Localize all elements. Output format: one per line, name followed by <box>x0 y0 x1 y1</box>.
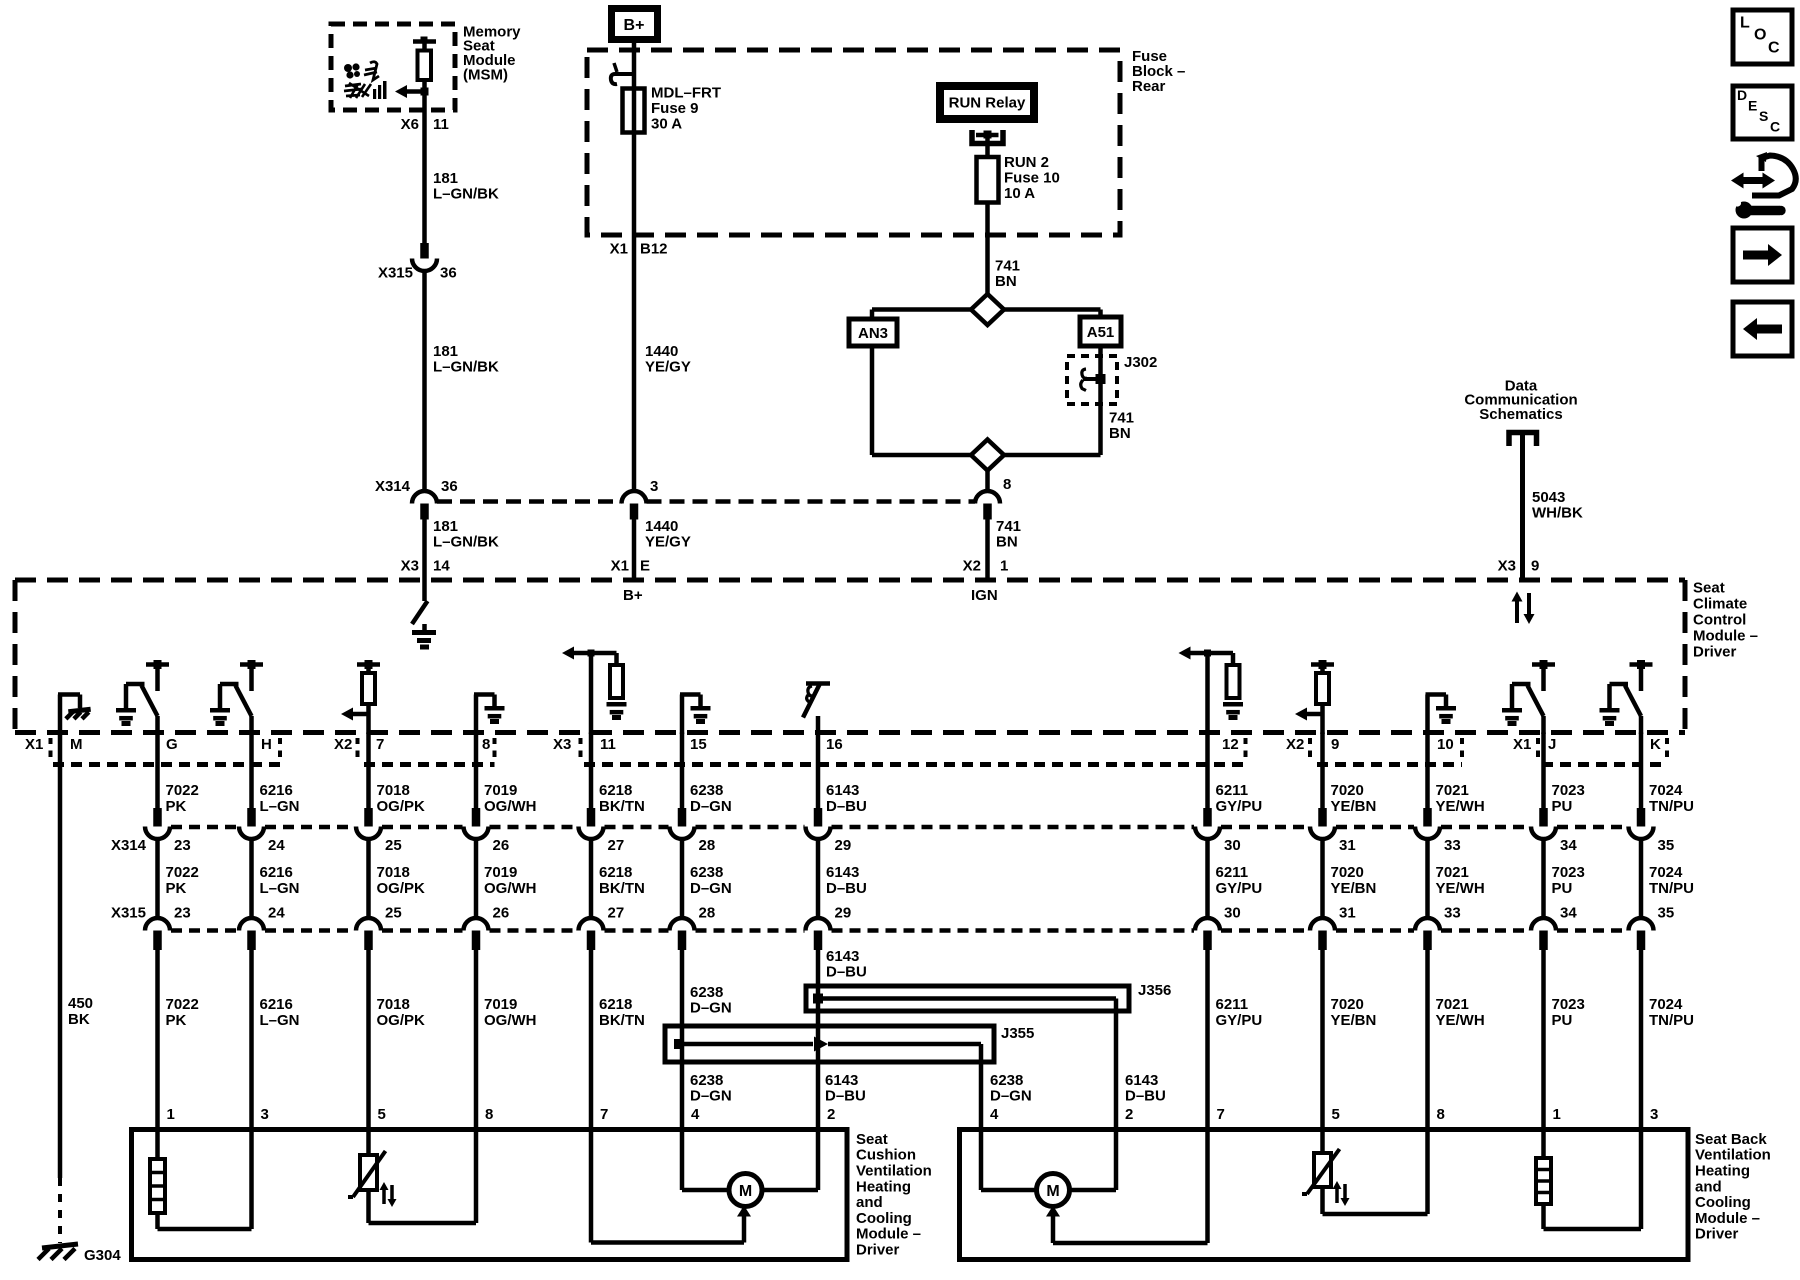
svg-text:6238: 6238 <box>690 984 723 1001</box>
svg-text:Climate: Climate <box>1693 595 1747 612</box>
svg-text:Driver: Driver <box>1695 1226 1739 1243</box>
svg-text:D–GN: D–GN <box>690 1087 732 1104</box>
svg-text:D: D <box>1737 87 1747 103</box>
svg-text:25: 25 <box>385 904 402 921</box>
svg-text:GY/PU: GY/PU <box>1216 880 1263 897</box>
svg-text:3: 3 <box>261 1106 269 1123</box>
svg-text:24: 24 <box>268 837 285 854</box>
svg-text:16: 16 <box>826 736 843 753</box>
svg-text:RUN 2: RUN 2 <box>1004 154 1049 171</box>
svg-text:7022: 7022 <box>166 996 199 1013</box>
svg-text:Control: Control <box>1693 611 1746 628</box>
svg-text:36: 36 <box>440 264 457 281</box>
svg-text:BN: BN <box>995 273 1017 290</box>
svg-text:YE/BN: YE/BN <box>1331 880 1377 897</box>
svg-text:9: 9 <box>1531 557 1539 574</box>
svg-text:L–GN/BK: L–GN/BK <box>433 358 499 375</box>
svg-text:X2: X2 <box>334 736 352 753</box>
svg-text:OG/PK: OG/PK <box>377 798 426 815</box>
svg-text:YE/WH: YE/WH <box>1436 1012 1485 1029</box>
svg-text:6238: 6238 <box>990 1072 1023 1089</box>
svg-text:24: 24 <box>268 904 285 921</box>
svg-text:H: H <box>261 736 272 753</box>
svg-text:Seat: Seat <box>1693 579 1725 596</box>
svg-text:7020: 7020 <box>1331 996 1364 1013</box>
svg-text:AN3: AN3 <box>858 325 888 342</box>
svg-text:7021: 7021 <box>1436 782 1469 799</box>
svg-text:B+: B+ <box>624 17 645 34</box>
svg-text:30 A: 30 A <box>651 115 682 132</box>
svg-text:G304: G304 <box>84 1247 121 1264</box>
svg-text:BK/TN: BK/TN <box>599 1012 645 1029</box>
svg-text:7024: 7024 <box>1649 864 1683 881</box>
svg-text:1: 1 <box>1000 557 1008 574</box>
svg-text:Module –: Module – <box>1695 1210 1760 1227</box>
svg-text:OG/WH: OG/WH <box>484 1012 537 1029</box>
svg-text:PK: PK <box>166 798 187 815</box>
svg-text:Driver: Driver <box>856 1242 900 1259</box>
svg-text:6143: 6143 <box>826 782 859 799</box>
svg-text:J: J <box>1548 736 1556 753</box>
svg-text:GY/PU: GY/PU <box>1216 798 1263 815</box>
svg-text:11: 11 <box>600 736 616 753</box>
svg-text:L–GN/BK: L–GN/BK <box>433 533 499 550</box>
svg-text:35: 35 <box>1658 837 1675 854</box>
svg-text:X314: X314 <box>111 837 147 854</box>
svg-text:PK: PK <box>166 1012 187 1029</box>
svg-text:BK/TN: BK/TN <box>599 880 645 897</box>
svg-text:7019: 7019 <box>484 996 517 1013</box>
svg-text:RUN Relay: RUN Relay <box>949 94 1026 111</box>
svg-text:X1: X1 <box>1513 736 1531 753</box>
svg-text:31: 31 <box>1339 904 1356 921</box>
svg-text:Cooling: Cooling <box>1695 1194 1751 1211</box>
svg-text:4: 4 <box>990 1106 999 1123</box>
svg-text:YE/BN: YE/BN <box>1331 1012 1377 1029</box>
svg-text:30: 30 <box>1224 904 1241 921</box>
svg-text:450: 450 <box>68 995 93 1012</box>
svg-text:27: 27 <box>608 837 625 854</box>
svg-text:3: 3 <box>650 478 658 495</box>
svg-text:6211: 6211 <box>1216 996 1249 1013</box>
svg-text:BN: BN <box>996 533 1018 550</box>
svg-text:J302: J302 <box>1124 354 1157 371</box>
svg-text:WH/BK: WH/BK <box>1532 504 1583 521</box>
svg-text:23: 23 <box>174 904 191 921</box>
svg-text:G: G <box>166 736 178 753</box>
svg-text:7020: 7020 <box>1331 864 1364 881</box>
svg-text:X2: X2 <box>1286 736 1304 753</box>
svg-text:D–GN: D–GN <box>690 999 732 1016</box>
svg-text:YE/BN: YE/BN <box>1331 798 1377 815</box>
svg-text:L: L <box>1740 15 1750 32</box>
svg-text:7022: 7022 <box>166 782 199 799</box>
svg-text:TN/PU: TN/PU <box>1649 798 1694 815</box>
svg-text:Ventilation: Ventilation <box>856 1163 932 1180</box>
svg-text:181: 181 <box>433 343 458 360</box>
svg-text:(MSM): (MSM) <box>463 66 508 83</box>
svg-text:7020: 7020 <box>1331 782 1364 799</box>
svg-text:X314: X314 <box>375 478 411 495</box>
svg-text:TN/PU: TN/PU <box>1649 1012 1694 1029</box>
svg-text:6211: 6211 <box>1216 782 1249 799</box>
svg-text:Module –: Module – <box>1693 627 1758 644</box>
svg-text:X315: X315 <box>111 904 146 921</box>
svg-text:E: E <box>1748 98 1757 114</box>
svg-text:B+: B+ <box>623 587 643 604</box>
svg-text:11: 11 <box>433 116 449 133</box>
svg-text:X3: X3 <box>1498 557 1516 574</box>
svg-text:28: 28 <box>699 837 716 854</box>
svg-text:Fuse 9: Fuse 9 <box>651 100 699 117</box>
svg-text:Schematics: Schematics <box>1479 406 1562 423</box>
svg-text:7023: 7023 <box>1552 864 1585 881</box>
svg-text:Driver: Driver <box>1693 643 1737 660</box>
svg-text:4: 4 <box>691 1106 700 1123</box>
svg-text:35: 35 <box>1658 904 1675 921</box>
svg-text:31: 31 <box>1339 837 1356 854</box>
svg-text:33: 33 <box>1444 904 1461 921</box>
svg-text:6218: 6218 <box>599 996 632 1013</box>
svg-text:D–BU: D–BU <box>826 880 867 897</box>
svg-text:Rear: Rear <box>1132 78 1166 95</box>
svg-text:2: 2 <box>827 1106 835 1123</box>
svg-text:B12: B12 <box>640 240 668 257</box>
svg-text:OG/WH: OG/WH <box>484 880 537 897</box>
svg-text:1440: 1440 <box>645 518 678 535</box>
svg-text:7019: 7019 <box>484 864 517 881</box>
svg-text:L–GN/BK: L–GN/BK <box>433 185 499 202</box>
svg-text:6238: 6238 <box>690 782 723 799</box>
svg-text:X1: X1 <box>25 736 43 753</box>
svg-text:8: 8 <box>485 1106 493 1123</box>
svg-text:D–GN: D–GN <box>990 1087 1032 1104</box>
svg-text:6143: 6143 <box>826 864 859 881</box>
svg-text:Fuse 10: Fuse 10 <box>1004 169 1060 186</box>
svg-text:X3: X3 <box>401 557 419 574</box>
svg-text:2: 2 <box>1125 1106 1133 1123</box>
svg-text:M: M <box>70 736 83 753</box>
svg-text:GY/PU: GY/PU <box>1216 1012 1263 1029</box>
svg-text:OG/PK: OG/PK <box>377 1012 426 1029</box>
svg-text:27: 27 <box>608 904 625 921</box>
svg-text:6216: 6216 <box>260 782 293 799</box>
svg-text:YE/GY: YE/GY <box>645 358 691 375</box>
svg-text:L–GN: L–GN <box>260 880 300 897</box>
svg-text:5043: 5043 <box>1532 489 1565 506</box>
svg-text:36: 36 <box>441 478 458 495</box>
svg-text:E: E <box>640 557 650 574</box>
svg-text:8: 8 <box>482 736 490 753</box>
svg-text:Module –: Module – <box>856 1226 921 1243</box>
svg-text:YE/WH: YE/WH <box>1436 880 1485 897</box>
svg-text:741: 741 <box>1109 409 1134 426</box>
svg-text:181: 181 <box>433 518 458 535</box>
svg-text:C: C <box>1768 40 1780 57</box>
svg-text:7018: 7018 <box>377 782 410 799</box>
svg-text:BK: BK <box>68 1011 90 1028</box>
svg-text:D–BU: D–BU <box>826 963 867 980</box>
svg-text:15: 15 <box>690 736 707 753</box>
svg-text:7019: 7019 <box>484 782 517 799</box>
svg-text:1: 1 <box>1553 1106 1561 1123</box>
svg-text:34: 34 <box>1560 904 1577 921</box>
svg-text:YE/WH: YE/WH <box>1436 798 1485 815</box>
svg-text:OG/PK: OG/PK <box>377 880 426 897</box>
svg-text:PK: PK <box>166 880 187 897</box>
svg-text:M: M <box>739 1183 752 1200</box>
svg-text:10 A: 10 A <box>1004 185 1035 202</box>
svg-text:29: 29 <box>835 904 852 921</box>
svg-text:7: 7 <box>376 736 384 753</box>
svg-text:TN/PU: TN/PU <box>1649 880 1694 897</box>
svg-text:6238: 6238 <box>690 1072 723 1089</box>
svg-text:Heating: Heating <box>1695 1163 1750 1180</box>
svg-text:D–BU: D–BU <box>826 798 867 815</box>
svg-text:J356: J356 <box>1138 982 1171 999</box>
svg-text:C: C <box>1770 119 1780 135</box>
svg-text:7: 7 <box>1217 1106 1225 1123</box>
svg-text:D–BU: D–BU <box>1125 1087 1166 1104</box>
svg-text:X6: X6 <box>401 116 419 133</box>
svg-text:25: 25 <box>385 837 402 854</box>
svg-text:BK/TN: BK/TN <box>599 798 645 815</box>
svg-text:7018: 7018 <box>377 996 410 1013</box>
svg-text:181: 181 <box>433 170 458 187</box>
svg-text:Cooling: Cooling <box>856 1210 912 1227</box>
svg-text:12: 12 <box>1222 736 1239 753</box>
svg-text:14: 14 <box>433 557 450 574</box>
svg-text:6238: 6238 <box>690 864 723 881</box>
svg-text:7024: 7024 <box>1649 782 1683 799</box>
svg-text:K: K <box>1650 736 1661 753</box>
svg-text:L–GN: L–GN <box>260 798 300 815</box>
svg-text:Ventilation: Ventilation <box>1695 1147 1771 1164</box>
svg-text:X1: X1 <box>611 557 629 574</box>
svg-text:and: and <box>856 1194 883 1211</box>
svg-text:34: 34 <box>1560 837 1577 854</box>
svg-text:X1: X1 <box>610 240 628 257</box>
svg-text:Seat Back: Seat Back <box>1695 1131 1767 1148</box>
svg-text:S: S <box>1759 108 1768 124</box>
svg-text:D–BU: D–BU <box>825 1087 866 1104</box>
svg-text:741: 741 <box>995 257 1020 274</box>
svg-text:26: 26 <box>493 904 510 921</box>
svg-text:7021: 7021 <box>1436 864 1469 881</box>
svg-text:X315: X315 <box>378 264 413 281</box>
svg-text:6211: 6211 <box>1216 864 1249 881</box>
svg-text:BN: BN <box>1109 425 1131 442</box>
svg-text:7021: 7021 <box>1436 996 1469 1013</box>
svg-text:Heating: Heating <box>856 1178 911 1195</box>
svg-text:Cushion: Cushion <box>856 1147 916 1164</box>
svg-text:6143: 6143 <box>825 1072 858 1089</box>
svg-text:28: 28 <box>699 904 716 921</box>
svg-text:PU: PU <box>1552 1012 1573 1029</box>
svg-text:8: 8 <box>1437 1106 1445 1123</box>
svg-text:7: 7 <box>600 1106 608 1123</box>
svg-text:L–GN: L–GN <box>260 1012 300 1029</box>
svg-text:9: 9 <box>1331 736 1339 753</box>
svg-text:MDL–FRT: MDL–FRT <box>651 84 721 101</box>
svg-text:J355: J355 <box>1001 1025 1034 1042</box>
svg-text:7023: 7023 <box>1552 782 1585 799</box>
svg-text:10: 10 <box>1437 736 1454 753</box>
svg-text:1: 1 <box>167 1106 175 1123</box>
svg-text:26: 26 <box>493 837 510 854</box>
svg-text:O: O <box>1754 27 1766 44</box>
svg-text:6143: 6143 <box>826 948 859 965</box>
svg-text:1440: 1440 <box>645 343 678 360</box>
svg-text:6216: 6216 <box>260 996 293 1013</box>
svg-text:33: 33 <box>1444 837 1461 854</box>
svg-text:A51: A51 <box>1087 324 1115 341</box>
svg-text:and: and <box>1695 1178 1722 1195</box>
svg-text:IGN: IGN <box>971 587 998 604</box>
svg-text:7023: 7023 <box>1552 996 1585 1013</box>
svg-text:3: 3 <box>1650 1106 1658 1123</box>
svg-text:M: M <box>1046 1183 1059 1200</box>
svg-text:6216: 6216 <box>260 864 293 881</box>
svg-text:OG/WH: OG/WH <box>484 798 537 815</box>
svg-text:29: 29 <box>835 837 852 854</box>
svg-text:5: 5 <box>1332 1106 1340 1123</box>
svg-text:X3: X3 <box>553 736 571 753</box>
svg-text:6218: 6218 <box>599 782 632 799</box>
svg-text:30: 30 <box>1224 837 1241 854</box>
svg-text:8: 8 <box>1003 476 1011 493</box>
svg-text:Seat: Seat <box>856 1131 888 1148</box>
svg-text:741: 741 <box>996 518 1021 535</box>
svg-text:6143: 6143 <box>1125 1072 1158 1089</box>
svg-text:6218: 6218 <box>599 864 632 881</box>
svg-text:PU: PU <box>1552 798 1573 815</box>
svg-text:YE/GY: YE/GY <box>645 533 691 550</box>
svg-text:7018: 7018 <box>377 864 410 881</box>
svg-text:D–GN: D–GN <box>690 880 732 897</box>
svg-text:23: 23 <box>174 837 191 854</box>
svg-text:7024: 7024 <box>1649 996 1683 1013</box>
svg-text:PU: PU <box>1552 880 1573 897</box>
svg-text:X2: X2 <box>963 557 981 574</box>
svg-text:D–GN: D–GN <box>690 798 732 815</box>
svg-text:5: 5 <box>378 1106 386 1123</box>
svg-text:7022: 7022 <box>166 864 199 881</box>
